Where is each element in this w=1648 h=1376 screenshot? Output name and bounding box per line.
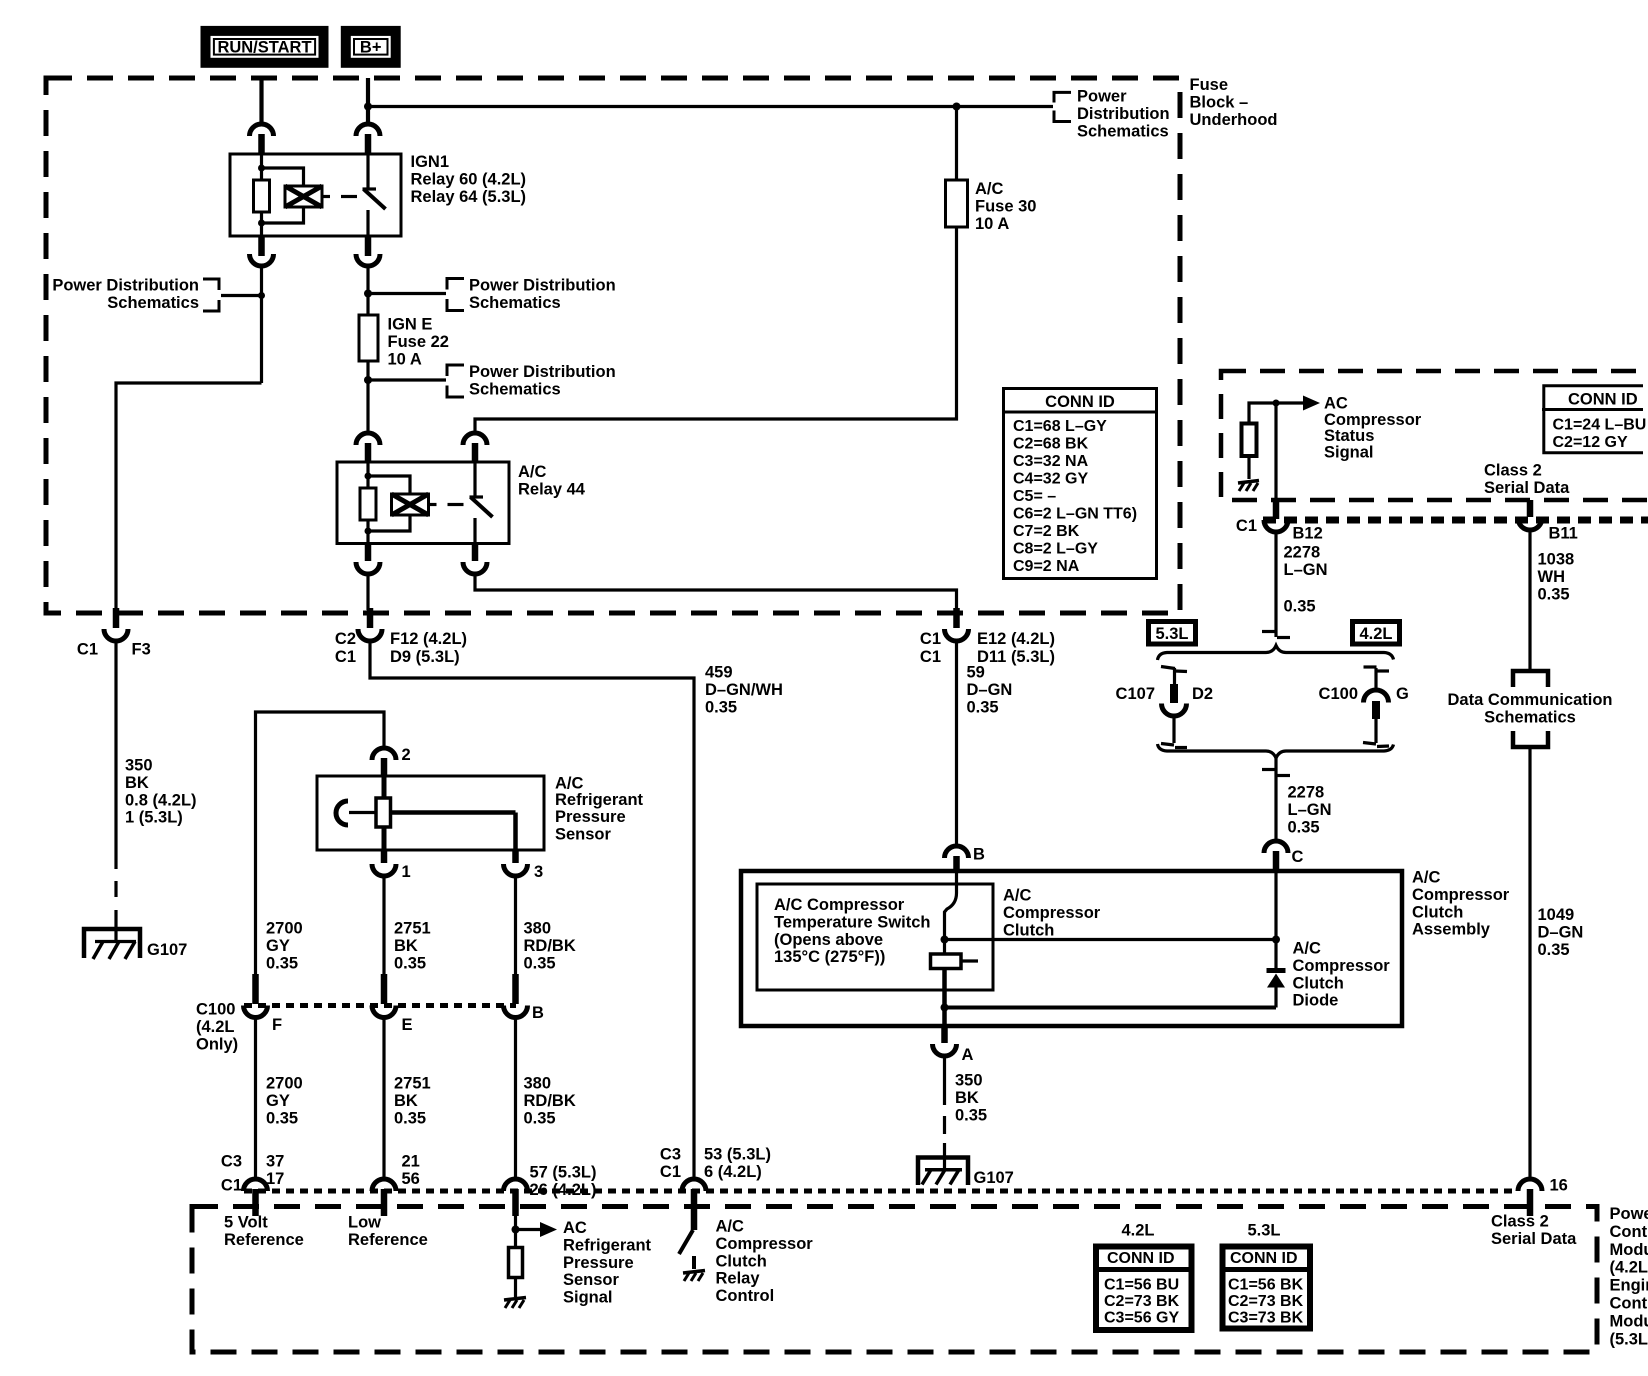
label wire 2700 GY 0.35 (upper) xyxy=(266,920,303,973)
junction below fuse22 / Power Distribution tap xyxy=(364,376,372,384)
connector pin B11 (cup) xyxy=(1518,518,1578,543)
junction AC refrigerant pressure sensor signal node xyxy=(512,1216,520,1248)
svg-text:C2=73 BK: C2=73 BK xyxy=(1228,1293,1304,1310)
svg-text:(Opens above: (Opens above xyxy=(774,931,883,949)
svg-text:B11: B11 xyxy=(1549,525,1578,543)
svg-text:CONN ID: CONN ID xyxy=(1045,393,1115,411)
label A/C Compressor Clutch xyxy=(1003,887,1101,940)
junction C to clutch feed xyxy=(1272,936,1280,944)
wire 2751 BK pin1 to C100 E xyxy=(382,876,385,990)
label A/C Compressor Clutch Relay Control xyxy=(716,1218,814,1306)
svg-text:GY: GY xyxy=(266,1092,290,1110)
svg-text:350: 350 xyxy=(125,757,153,775)
label wire 380 RD/BK 0.35 (lower) xyxy=(524,1075,576,1128)
svg-text:6 (4.2L): 6 (4.2L) xyxy=(704,1163,762,1181)
svg-text:F3: F3 xyxy=(132,641,151,659)
pin stub PCM 5 volt reference xyxy=(252,1189,259,1216)
svg-text:Compressor: Compressor xyxy=(716,1235,814,1253)
svg-text:C8=2 L–GY: C8=2 L–GY xyxy=(1013,541,1098,558)
svg-text:C1=56 BU: C1=56 BU xyxy=(1104,1277,1179,1294)
connector C100 pin G (4.2L in-line) xyxy=(1319,667,1409,719)
svg-text:C100: C100 xyxy=(196,1001,235,1019)
svg-text:B: B xyxy=(532,1004,544,1022)
svg-text:G107: G107 xyxy=(147,941,187,959)
junction B+ node xyxy=(364,103,372,111)
svg-text:3: 3 xyxy=(534,863,543,881)
relay IGN1 (Relay 60 4.2L / Relay 64 5.3L) xyxy=(230,154,401,236)
svg-text:BK: BK xyxy=(125,774,149,792)
svg-text:Schematics: Schematics xyxy=(469,380,561,398)
label A/C Refrigerant Pressure Sensor xyxy=(555,775,644,844)
connector C3/C1 pin 53/6 (arch) xyxy=(660,1146,771,1192)
svg-text:17: 17 xyxy=(266,1170,284,1188)
pin stub sensor pin 1 xyxy=(381,850,388,863)
class 2 serial data dotted bus line xyxy=(1263,517,1648,524)
off-page reference bracket Power Distribution Schematics (top right) xyxy=(1054,88,1170,141)
pin stub A/C relay bottom left xyxy=(365,544,372,562)
svg-text:Block –: Block – xyxy=(1190,93,1249,111)
label IGN1 relay xyxy=(411,153,527,206)
connector C2/C1 pin F12/D9 (cup) xyxy=(335,629,467,666)
svg-text:(4.2L: (4.2L xyxy=(196,1018,235,1036)
label Powertrain Control Module / Engine Control Module (right edge) xyxy=(1610,1205,1648,1348)
pin stub into A/C relay left xyxy=(365,443,372,462)
wire A/C relay switch output to E12 xyxy=(475,574,957,610)
svg-text:4.2L: 4.2L xyxy=(1122,1222,1155,1240)
label wire 380 RD/BK 0.35 (upper) xyxy=(524,920,576,973)
wire IGN1 left output down xyxy=(260,266,263,383)
svg-text:(4.2L): (4.2L) xyxy=(1610,1259,1648,1277)
connector pin IGN1 input from RUN/START (arch) xyxy=(250,124,274,136)
svg-text:Serial Data: Serial Data xyxy=(1491,1230,1577,1248)
pin stub through fuse block border at F12 xyxy=(367,608,374,628)
svg-text:RUN/START: RUN/START xyxy=(217,39,311,57)
label wire 1049 D-GN 0.35 xyxy=(1538,906,1584,959)
wire 350 BK to G107 xyxy=(114,641,117,941)
svg-text:56: 56 xyxy=(402,1170,420,1188)
svg-text:RD/BK: RD/BK xyxy=(524,937,576,955)
svg-text:C1: C1 xyxy=(77,641,98,659)
svg-text:0.8 (4.2L): 0.8 (4.2L) xyxy=(125,791,197,809)
svg-text:0.35: 0.35 xyxy=(1284,598,1316,616)
svg-text:0.35: 0.35 xyxy=(967,698,999,716)
wire from pressure sensor pin 2 up and left to C100 F xyxy=(256,712,385,990)
wire fuse22 bottom xyxy=(366,361,369,433)
svg-text:Low: Low xyxy=(348,1214,381,1232)
wire B+ down to IGN1 relay xyxy=(366,78,370,124)
svg-text:26 (4.2L): 26 (4.2L) xyxy=(530,1181,597,1199)
svg-text:D11 (5.3L): D11 (5.3L) xyxy=(977,648,1055,666)
wire resistor bottom to chassis ground xyxy=(1247,456,1250,479)
svg-text:E12 (4.2L): E12 (4.2L) xyxy=(977,630,1055,648)
temperature switch blade from B xyxy=(945,871,957,940)
svg-text:B: B xyxy=(973,846,985,864)
A/C Compressor Clutch Assembly box xyxy=(741,871,1402,1026)
label wire 350 BK 0.35 xyxy=(955,1072,987,1125)
wire A/C relay coil output down to C2/C1 F12 xyxy=(366,574,369,610)
connector table CONN ID (PCM 4.2L) xyxy=(1093,1247,1195,1331)
label 5 Volt Reference xyxy=(224,1214,304,1249)
wire status node down through box to C1 B12 xyxy=(1274,403,1277,498)
svg-text:A/C: A/C xyxy=(518,463,547,481)
svg-text:Power: Power xyxy=(1610,1205,1648,1223)
ground G107 (left) xyxy=(84,929,187,959)
connector pin IGN1 output right (cup) xyxy=(356,254,380,266)
svg-text:Engine: Engine xyxy=(1610,1277,1648,1295)
label wire 459 D-GN/WH 0.35 xyxy=(705,664,783,717)
svg-text:C1: C1 xyxy=(920,648,941,666)
pin stub through status box border at B12 xyxy=(1273,498,1280,519)
resistor (PCM pull-up on sensor signal) xyxy=(509,1248,523,1278)
svg-text:Class 2: Class 2 xyxy=(1484,462,1542,480)
off-page reference bracket Power Distribution Schematics (left) xyxy=(52,277,261,312)
svg-text:1049: 1049 xyxy=(1538,906,1575,924)
junction clutch return node xyxy=(941,1004,949,1012)
svg-text:B+: B+ xyxy=(360,39,382,57)
junction temp switch to clutch coil xyxy=(941,936,949,944)
label wire 2751 BK 0.35 (upper) xyxy=(394,920,431,973)
wire resistor top to status signal node xyxy=(1249,403,1276,424)
svg-text:2751: 2751 xyxy=(394,1075,431,1093)
connector pin A/C relay switch output (cup) xyxy=(463,562,487,574)
wire temp switch node to diode (A/C compressor clutch feed) xyxy=(945,938,1277,941)
svg-text:Compressor: Compressor xyxy=(1003,904,1101,922)
svg-text:C1: C1 xyxy=(1236,517,1257,535)
wire corner to left, down to C1 F3 xyxy=(116,383,262,610)
svg-text:Underhood: Underhood xyxy=(1190,111,1278,129)
connector pin C of clutch assembly (arch) xyxy=(1264,841,1304,866)
svg-text:Fuse: Fuse xyxy=(1190,76,1229,94)
svg-text:Relay: Relay xyxy=(716,1270,761,1288)
svg-text:Schematics: Schematics xyxy=(107,294,199,312)
svg-text:1 (5.3L): 1 (5.3L) xyxy=(125,809,183,827)
off-page reference Data Communication Schematics xyxy=(1447,671,1612,747)
svg-text:F: F xyxy=(272,1016,282,1034)
wire fuse30 down and left to A/C relay xyxy=(475,227,957,433)
connector pin 2 of pressure sensor (arch) xyxy=(372,746,411,764)
pin stub IGN1 bottom right xyxy=(365,236,372,256)
svg-text:D2: D2 xyxy=(1192,685,1213,703)
svg-text:Only): Only) xyxy=(196,1035,238,1053)
svg-text:21: 21 xyxy=(402,1153,420,1171)
svg-text:2700: 2700 xyxy=(266,1075,303,1093)
relay A/C Relay 44 xyxy=(337,462,509,544)
svg-text:WH: WH xyxy=(1538,568,1566,586)
svg-text:Fuse 22: Fuse 22 xyxy=(388,333,449,351)
connector pin A/C relay coil input (arch) xyxy=(356,433,380,445)
svg-text:0.35: 0.35 xyxy=(1538,941,1570,959)
switch A/C compressor clutch relay driver xyxy=(679,1230,694,1269)
wire 59 D-GN from E12 down to B xyxy=(955,641,958,846)
svg-text:59: 59 xyxy=(967,664,985,682)
ground G107 (right) xyxy=(918,1158,1014,1188)
off-page reference bracket Power Distribution Schematics (above fuse 22) xyxy=(368,277,616,312)
connector C1 pin B12 (cup) xyxy=(1236,517,1323,543)
wire IGN1 right output down to fuse IGN E xyxy=(366,266,369,315)
svg-text:C7=2 BK: C7=2 BK xyxy=(1013,523,1080,540)
svg-text:Clutch: Clutch xyxy=(1003,921,1054,939)
svg-text:Compressor: Compressor xyxy=(1293,957,1391,975)
pin stub PCM low reference xyxy=(381,1189,388,1216)
connector C107 pin D2 (5.3L in-line) xyxy=(1116,667,1214,717)
svg-text:Reference: Reference xyxy=(348,1231,428,1249)
svg-text:Control: Control xyxy=(716,1287,775,1305)
label AC Compressor Status Signal xyxy=(1324,395,1422,462)
svg-text:0.35: 0.35 xyxy=(524,1109,556,1127)
svg-text:C3: C3 xyxy=(660,1146,681,1164)
svg-text:IGN1: IGN1 xyxy=(411,153,450,171)
pin stub PCM clutch relay control xyxy=(691,1189,698,1230)
wire 380 RD/BK pin3 to C100 B xyxy=(514,876,517,990)
Fuse Block - Underhood dashed boundary box xyxy=(46,78,1180,613)
wire B12 down to engine split xyxy=(1274,532,1277,637)
splice mark at engine split top xyxy=(1262,632,1290,638)
wire resistor to chassis ground xyxy=(514,1278,517,1298)
pin stub into IGN1 left xyxy=(258,134,265,154)
svg-text:D–GN: D–GN xyxy=(1538,923,1584,941)
svg-text:Compressor: Compressor xyxy=(1412,886,1510,904)
node RUN/START (power feed box) xyxy=(206,31,324,63)
svg-text:Data Communication: Data Communication xyxy=(1447,691,1612,709)
svg-text:1: 1 xyxy=(402,863,411,881)
connector C100 pin F (cup) xyxy=(244,1006,283,1035)
svg-text:57 (5.3L): 57 (5.3L) xyxy=(530,1164,597,1182)
svg-text:Refrigerant: Refrigerant xyxy=(563,1236,652,1254)
pin stub into assembly at C xyxy=(1273,851,1280,871)
svg-text:0.35: 0.35 xyxy=(394,954,426,972)
connector table CONN ID (PCM 5.3L) xyxy=(1220,1247,1314,1329)
pin stub through fuse block border at F3 xyxy=(113,608,120,628)
svg-text:(5.3L): (5.3L) xyxy=(1610,1330,1648,1348)
label wire 2278 L-GN 0.35 (from B12) xyxy=(1284,544,1328,616)
svg-text:CONN ID: CONN ID xyxy=(1568,391,1638,409)
junction fuse22 top / Power Distribution tap xyxy=(364,290,372,298)
svg-text:GY: GY xyxy=(266,937,290,955)
wire diode bottom return xyxy=(945,1006,1277,1010)
connector pin 57/26 (arch) xyxy=(504,1164,597,1199)
svg-text:C: C xyxy=(1292,848,1304,866)
svg-text:L–GN: L–GN xyxy=(1288,801,1332,819)
wire temp switch bottom to A junction xyxy=(942,969,947,1027)
label connector C100 (4.2L Only) xyxy=(196,1001,238,1054)
svg-text:Relay 64 (5.3L): Relay 64 (5.3L) xyxy=(411,188,527,206)
wire 1049 D-GN from data comm reference to PCM pin 16 xyxy=(1528,747,1531,1179)
svg-text:Relay 44: Relay 44 xyxy=(518,480,586,498)
svg-text:350: 350 xyxy=(955,1072,983,1090)
label wire 59 D-GN 0.35 xyxy=(967,664,1013,717)
svg-text:AC: AC xyxy=(1324,395,1348,413)
svg-text:Pressure: Pressure xyxy=(563,1254,634,1272)
svg-text:C9=2 NA: C9=2 NA xyxy=(1013,558,1080,575)
svg-text:Control: Control xyxy=(1610,1295,1648,1313)
connector C1/C1 pin E12/D11 (cup) xyxy=(920,629,1055,666)
svg-text:1038: 1038 xyxy=(1538,551,1575,569)
off-page reference bracket Power Distribution Schematics (below fuse 22) xyxy=(368,363,616,398)
svg-text:C3=32 NA: C3=32 NA xyxy=(1013,453,1089,470)
svg-text:4.2L: 4.2L xyxy=(1359,625,1392,643)
PCM dashed boundary box xyxy=(192,1207,1597,1353)
pin stub C100 F xyxy=(252,974,259,1004)
connector pin B of clutch assembly (arch) xyxy=(945,846,986,864)
connector table CONN ID (compressor, top right) xyxy=(1542,386,1646,453)
svg-text:G107: G107 xyxy=(974,1169,1014,1187)
fuse A/C Fuse 30 10 A xyxy=(946,107,1037,233)
connector pin 21/56 (arch) xyxy=(372,1153,420,1192)
wire 380 RD/BK from C100 B to PCM xyxy=(514,1018,517,1180)
svg-text:Power: Power xyxy=(1077,88,1127,106)
svg-text:2751: 2751 xyxy=(394,920,431,938)
label wire 2278 L-GN 0.35 (to C) xyxy=(1288,784,1332,837)
connector C3/C1 pin 37/17 (arch) xyxy=(221,1153,284,1195)
svg-text:Schematics: Schematics xyxy=(1484,708,1576,726)
svg-text:C4=32 GY: C4=32 GY xyxy=(1013,471,1088,488)
svg-text:C5= –: C5= – xyxy=(1013,488,1056,505)
wire 459 D-GN/WH from F12 to A/C compressor clutch relay control xyxy=(370,641,694,1179)
svg-text:AC: AC xyxy=(563,1219,587,1237)
label wire 1038 WH 0.35 xyxy=(1538,551,1575,604)
svg-text:C107: C107 xyxy=(1116,685,1155,703)
pin stub into IGN1 right xyxy=(365,134,372,154)
svg-text:BK: BK xyxy=(394,937,418,955)
chassis ground (clutch relay driver) xyxy=(683,1271,705,1282)
svg-text:F12 (4.2L): F12 (4.2L) xyxy=(390,630,467,648)
wire C107 to lower brace xyxy=(1161,716,1187,748)
connector pin IGN1 input from B+ (arch) xyxy=(356,124,380,136)
pin stub out of assembly at A xyxy=(941,1026,948,1043)
svg-text:459: 459 xyxy=(705,664,733,682)
svg-text:Power Distribution: Power Distribution xyxy=(469,363,616,381)
label Low Reference xyxy=(348,1214,428,1249)
wire 2751 BK from C100 E to PCM xyxy=(382,1018,385,1180)
svg-text:Reference: Reference xyxy=(224,1231,304,1249)
svg-text:A/C: A/C xyxy=(975,180,1004,198)
pin stub PCM pressure sensor signal xyxy=(512,1189,519,1216)
label A/C Relay 44 xyxy=(518,463,586,498)
label A/C Compressor Clutch Assembly xyxy=(1412,869,1510,939)
connector pin A/C relay switch input (arch) xyxy=(463,433,487,445)
PCM connector row dotted line xyxy=(244,1189,1517,1194)
svg-text:D–GN: D–GN xyxy=(967,681,1013,699)
svg-text:Distribution: Distribution xyxy=(1077,105,1170,123)
svg-text:C1: C1 xyxy=(920,630,941,648)
svg-text:Fuse 30: Fuse 30 xyxy=(975,197,1036,215)
svg-text:Class 2: Class 2 xyxy=(1491,1213,1549,1231)
svg-text:2278: 2278 xyxy=(1284,544,1321,562)
svg-text:Assembly: Assembly xyxy=(1412,921,1491,939)
pin stub into sensor top xyxy=(381,758,388,776)
svg-text:Schematics: Schematics xyxy=(469,294,561,312)
svg-text:2278: 2278 xyxy=(1288,784,1325,802)
arrow AC Compressor Status Signal xyxy=(1276,396,1320,411)
svg-text:C2: C2 xyxy=(335,630,356,648)
connector pin 16 (arch) xyxy=(1518,1177,1568,1195)
junction A/C Fuse 30 tap xyxy=(953,103,961,111)
wire 350 BK from A to G107 xyxy=(943,1056,946,1170)
svg-text:Signal: Signal xyxy=(563,1289,613,1307)
svg-text:Clutch: Clutch xyxy=(1293,974,1344,992)
pin stub into A/C relay right xyxy=(472,443,479,462)
svg-text:Sensor: Sensor xyxy=(563,1271,620,1289)
A/C Compressor Temperature Switch box xyxy=(757,884,993,990)
connector C1 pin F3 (cup) xyxy=(77,629,151,659)
brace splitting wire by engine (top) xyxy=(1158,646,1394,661)
svg-text:5.3L: 5.3L xyxy=(1248,1222,1281,1240)
connector C100 pin B (cup) xyxy=(504,1004,545,1022)
svg-text:37: 37 xyxy=(266,1153,284,1171)
label Class 2 Serial Data (top) xyxy=(1484,462,1570,497)
svg-text:C2=73 BK: C2=73 BK xyxy=(1104,1293,1180,1310)
svg-text:0.35: 0.35 xyxy=(1538,585,1570,603)
resistor in status signal circuit xyxy=(1242,424,1257,457)
junction to Power Distribution Schematics (left) xyxy=(258,292,265,299)
node 5.3L engine tag xyxy=(1149,622,1196,645)
temperature switch contact element xyxy=(931,940,979,969)
svg-text:B12: B12 xyxy=(1293,525,1323,543)
svg-text:C1=68 L–GY: C1=68 L–GY xyxy=(1013,418,1107,435)
svg-text:0.35: 0.35 xyxy=(394,1109,426,1127)
svg-text:Schematics: Schematics xyxy=(1077,122,1169,140)
svg-text:C100: C100 xyxy=(1319,685,1358,703)
svg-text:Clutch: Clutch xyxy=(716,1252,767,1270)
svg-text:Refrigerant: Refrigerant xyxy=(555,791,644,809)
chassis ground (sensor signal) xyxy=(504,1298,526,1309)
AC Compressor Status Signal dashed box xyxy=(1221,371,1648,500)
svg-text:C3: C3 xyxy=(221,1153,242,1171)
connector C100 pin E (cup) xyxy=(372,1006,413,1035)
svg-text:2: 2 xyxy=(402,746,411,764)
svg-text:0.35: 0.35 xyxy=(266,1109,298,1127)
pin stub through fuse block border at E12 xyxy=(953,608,960,628)
wire C100 G to lower brace xyxy=(1363,719,1389,747)
connector pin 3 of pressure sensor (cup) xyxy=(504,863,544,881)
svg-text:E: E xyxy=(402,1016,413,1034)
svg-text:0.35: 0.35 xyxy=(705,698,737,716)
svg-text:C3=73 BK: C3=73 BK xyxy=(1228,1310,1304,1327)
wire B+ node to Power Distribution reference (top right) xyxy=(368,105,1053,108)
svg-text:C1=24 L–BU: C1=24 L–BU xyxy=(1553,417,1647,434)
svg-text:IGN E: IGN E xyxy=(388,316,433,334)
svg-text:5.3L: 5.3L xyxy=(1155,625,1188,643)
svg-text:A/C Compressor: A/C Compressor xyxy=(774,896,905,914)
svg-text:CONN ID: CONN ID xyxy=(1230,1250,1298,1267)
svg-text:Module: Module xyxy=(1610,1241,1648,1259)
wire C pin down to diode xyxy=(1274,871,1277,968)
svg-text:380: 380 xyxy=(524,920,552,938)
svg-text:Control: Control xyxy=(1610,1223,1648,1241)
wire 1038 WH from B11 to data comm reference xyxy=(1528,530,1531,671)
wire 2700 GY from C100 F to PCM xyxy=(254,1018,257,1180)
pin stub into assembly at B xyxy=(953,856,960,871)
svg-text:10 A: 10 A xyxy=(975,215,1009,233)
svg-text:5 Volt: 5 Volt xyxy=(224,1214,268,1232)
svg-text:Temperature Switch: Temperature Switch xyxy=(774,913,930,931)
svg-text:0.35: 0.35 xyxy=(955,1106,987,1124)
brace rejoining wire by engine (bottom) xyxy=(1158,744,1394,758)
A/C Refrigerant Pressure Sensor xyxy=(317,776,544,850)
svg-text:Serial Data: Serial Data xyxy=(1484,479,1570,497)
svg-text:C3=56 GY: C3=56 GY xyxy=(1104,1310,1179,1327)
svg-text:Sensor: Sensor xyxy=(555,826,612,844)
svg-text:C6=2 L–GN TT6): C6=2 L–GN TT6) xyxy=(1013,506,1137,523)
svg-text:C2=68 BK: C2=68 BK xyxy=(1013,436,1089,453)
svg-text:A/C: A/C xyxy=(1293,940,1322,958)
svg-text:CONN ID: CONN ID xyxy=(1107,1250,1175,1267)
svg-text:10 A: 10 A xyxy=(388,350,422,368)
label wire 2700 GY 0.35 (lower) xyxy=(266,1075,303,1128)
pin stub sensor pin 3 xyxy=(512,850,519,863)
svg-text:A: A xyxy=(962,1046,974,1064)
svg-text:D–GN/WH: D–GN/WH xyxy=(705,681,783,699)
